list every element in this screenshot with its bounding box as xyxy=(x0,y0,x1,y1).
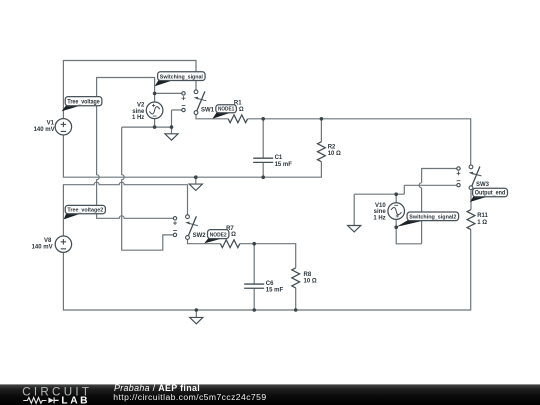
wire SW1 bottom to NODE1 rail to SW3 top xyxy=(196,115,471,166)
switch SW1 xyxy=(182,90,207,115)
label C6 value xyxy=(266,281,284,294)
node flag NODE2 xyxy=(204,230,229,244)
label C1 value xyxy=(275,155,293,168)
ground at V10 top net xyxy=(348,194,361,232)
svg-text:R2: R2 xyxy=(328,144,336,150)
label R8 value xyxy=(304,272,317,285)
wire V2+ branch to SW1 + control xyxy=(155,92,182,94)
ground on line A rail xyxy=(189,177,202,190)
svg-text:V1: V1 xyxy=(47,121,55,127)
svg-text:http://circuitlab.com/c5m7ccz2: http://circuitlab.com/c5m7ccz24c759 xyxy=(113,392,266,402)
wire R11 top lead from SW3 bottom xyxy=(470,190,472,209)
svg-text:140 mV: 140 mV xyxy=(34,127,55,133)
resistor R7 xyxy=(220,240,239,248)
ground on bottom rail xyxy=(190,310,203,324)
svg-text:15 mF: 15 mF xyxy=(275,162,293,168)
wire SW2 bottom NODE2 rail to R8 xyxy=(188,240,296,268)
node flag Output_end xyxy=(470,188,508,202)
CircuitLab logo wordmark xyxy=(22,385,92,405)
capacitor C1 xyxy=(253,158,273,162)
svg-text:15 mF: 15 mF xyxy=(266,287,284,293)
svg-text:C1: C1 xyxy=(275,155,283,161)
node flag Tree_voltage2 xyxy=(64,205,106,219)
wire V1+ top rail to SW1 top throw xyxy=(63,61,196,119)
svg-text:10 Ω: 10 Ω xyxy=(304,279,317,285)
svg-text:1 Hz: 1 Hz xyxy=(132,115,144,121)
wire V2- node with ground stub and SW1 - control xyxy=(122,110,182,127)
resistor R11 xyxy=(467,210,475,230)
label V10 value xyxy=(373,203,386,222)
wire V8- bottom rail to R11 bottom xyxy=(63,230,470,310)
node flag Tree_voltage xyxy=(62,97,102,112)
label R11 value xyxy=(477,213,488,226)
label V8 value xyxy=(32,238,53,251)
wire V2+ node up-left-down to SW2 + control xyxy=(97,78,174,219)
voltage source V1 xyxy=(55,119,71,135)
sine source V10 xyxy=(388,203,405,220)
label V2 value xyxy=(132,103,145,122)
svg-text:140 mV: 140 mV xyxy=(32,245,53,251)
voltage source V8 xyxy=(55,236,71,252)
sine source V2 xyxy=(146,102,163,119)
wire V1- bottom to line A rail and R2 bottom xyxy=(63,135,321,177)
wire R8 bottom lead xyxy=(295,288,297,310)
resistor R1 xyxy=(228,115,247,123)
resistor R2 xyxy=(318,142,326,162)
resistor R8 xyxy=(292,268,300,288)
ground at V2- node xyxy=(165,127,178,140)
svg-text:NODE1: NODE1 xyxy=(218,107,235,113)
node flag NODE1 xyxy=(212,105,236,119)
svg-text:LAB: LAB xyxy=(61,396,90,405)
svg-text:R11: R11 xyxy=(477,213,488,219)
wire V10 top node to ground and SW3 - control xyxy=(354,185,457,203)
footer bar xyxy=(0,384,540,405)
svg-text:Output_end: Output_end xyxy=(475,191,506,197)
footer url text xyxy=(113,392,266,402)
svg-text:Tree_voltage2: Tree_voltage2 xyxy=(67,208,103,214)
svg-text:10 Ω: 10 Ω xyxy=(328,151,341,157)
svg-text:NODE2: NODE2 xyxy=(210,233,227,239)
label V1 value xyxy=(34,121,55,134)
label SW1 xyxy=(201,107,215,113)
svg-text:V8: V8 xyxy=(44,238,52,244)
svg-text:R8: R8 xyxy=(304,272,312,278)
label SW2 xyxy=(193,233,207,239)
svg-text:sine: sine xyxy=(132,109,145,115)
node flag Switching_signal2 xyxy=(397,212,459,227)
label R7 value xyxy=(226,226,236,238)
wire C6 branch xyxy=(253,244,255,310)
wire R2 top lead xyxy=(320,119,322,142)
svg-text:Switching_signal2: Switching_signal2 xyxy=(409,215,456,221)
svg-text:Switching_signal: Switching_signal xyxy=(160,74,203,80)
wire V10+ loop up to SW3 + control xyxy=(396,169,457,244)
label SW3 xyxy=(476,182,490,188)
svg-text:1 Hz: 1 Hz xyxy=(373,216,385,222)
wire C1 branch xyxy=(262,119,264,177)
svg-text:SW2: SW2 xyxy=(193,233,207,239)
label R2 value xyxy=(328,144,341,157)
junction dots xyxy=(153,92,398,312)
node flag Switching_signal xyxy=(155,72,205,87)
svg-text:SW1: SW1 xyxy=(201,107,215,113)
footer title text xyxy=(114,383,200,393)
svg-text:V10: V10 xyxy=(375,203,386,209)
svg-text:V2: V2 xyxy=(137,103,145,109)
wire V2- net down to SW2 - control xyxy=(122,127,174,250)
switch SW2 xyxy=(173,215,198,240)
label R1 value xyxy=(234,100,244,113)
wire V8+ line B rail to SW2 top throw xyxy=(63,182,187,236)
svg-text:Tree_voltage: Tree_voltage xyxy=(67,100,100,106)
capacitor C6 xyxy=(244,284,264,288)
svg-text:C6: C6 xyxy=(266,281,274,287)
svg-text:SW3: SW3 xyxy=(476,182,490,188)
svg-text:sine: sine xyxy=(374,209,387,215)
svg-text:1 Ω: 1 Ω xyxy=(477,220,487,226)
switch SW3 xyxy=(457,165,482,190)
